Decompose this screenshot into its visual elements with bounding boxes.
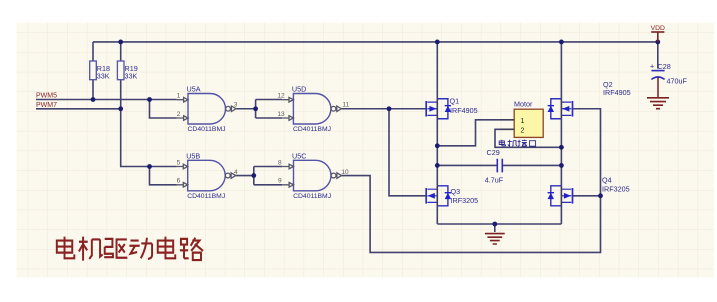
svg-text:1: 1 <box>177 92 181 99</box>
svg-text:CD4011BMJ: CD4011BMJ <box>293 193 331 200</box>
svg-text:IRF3205: IRF3205 <box>451 196 479 205</box>
svg-text:CD4011BMJ: CD4011BMJ <box>293 126 331 133</box>
svg-text:33K: 33K <box>97 72 110 81</box>
svg-text:U5B: U5B <box>186 151 200 160</box>
svg-text:U5A: U5A <box>187 84 201 93</box>
svg-text:470uF: 470uF <box>667 76 688 85</box>
svg-text:12: 12 <box>277 92 285 99</box>
svg-text:Q3: Q3 <box>451 187 461 196</box>
svg-text:33K: 33K <box>125 72 138 81</box>
svg-text:C29: C29 <box>487 148 500 157</box>
svg-text:5: 5 <box>177 159 181 166</box>
svg-text:2: 2 <box>521 127 525 134</box>
svg-text:Motor: Motor <box>514 99 533 108</box>
svg-text:11: 11 <box>343 101 350 108</box>
svg-text:C28: C28 <box>658 62 671 71</box>
svg-text:U5D: U5D <box>292 84 306 93</box>
svg-text:PWM5: PWM5 <box>36 93 57 100</box>
svg-text:CD4011BMJ: CD4011BMJ <box>187 193 225 200</box>
svg-text:1: 1 <box>521 118 525 125</box>
svg-text:Q1: Q1 <box>450 97 460 106</box>
svg-text:IRF4905: IRF4905 <box>603 88 631 97</box>
svg-text:+: + <box>650 61 654 70</box>
svg-text:4.7uF: 4.7uF <box>485 175 504 184</box>
svg-text:VDD: VDD <box>651 25 665 32</box>
svg-text:8: 8 <box>278 159 282 166</box>
svg-text:2: 2 <box>177 111 181 118</box>
svg-text:4: 4 <box>234 169 238 176</box>
svg-text:CD4011BMJ: CD4011BMJ <box>188 126 226 133</box>
svg-text:Q4: Q4 <box>602 176 612 185</box>
svg-text:9: 9 <box>278 178 282 185</box>
svg-text:IRF3205: IRF3205 <box>602 185 630 194</box>
svg-text:6: 6 <box>177 178 181 185</box>
svg-text:IRF4905: IRF4905 <box>450 106 478 115</box>
svg-text:13: 13 <box>277 111 285 118</box>
svg-text:PWM7: PWM7 <box>36 102 57 109</box>
svg-text:3: 3 <box>234 101 238 108</box>
svg-text:U5C: U5C <box>292 151 306 160</box>
svg-text:10: 10 <box>341 169 349 176</box>
